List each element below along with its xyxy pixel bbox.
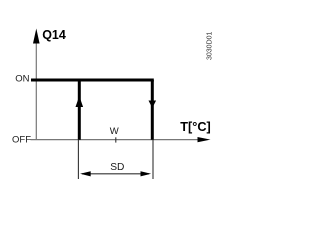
x-axis arrowhead xyxy=(198,137,211,142)
ON level thick line xyxy=(31,79,154,82)
SD right arrowhead xyxy=(141,171,152,176)
right extension line xyxy=(152,140,154,179)
y-axis (Q14 axis) xyxy=(35,40,37,140)
down arrowhead on right edge xyxy=(149,101,157,109)
svg-text:W: W xyxy=(110,126,119,137)
svg-text:Q14: Q14 xyxy=(42,28,66,42)
y-axis arrowhead xyxy=(33,29,40,44)
x-axis (T axis) xyxy=(31,139,204,141)
SD left arrowhead xyxy=(80,171,91,176)
svg-text:T[°C]: T[°C] xyxy=(180,120,210,134)
up arrowhead on left edge xyxy=(76,96,84,107)
SD dimension line xyxy=(82,173,149,175)
svg-text:OFF: OFF xyxy=(12,134,31,145)
svg-text:ON: ON xyxy=(15,74,29,85)
left extension line xyxy=(77,140,79,179)
svg-text:3030D01: 3030D01 xyxy=(207,31,214,60)
right thick vertical (switch-off edge) xyxy=(151,80,154,140)
left thick vertical (switch-on edge) xyxy=(78,80,81,140)
svg-text:SD: SD xyxy=(110,162,124,173)
W setpoint tick xyxy=(115,137,117,142)
